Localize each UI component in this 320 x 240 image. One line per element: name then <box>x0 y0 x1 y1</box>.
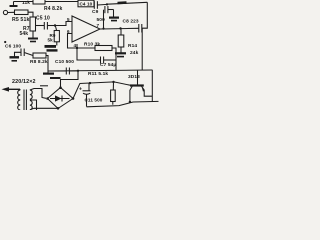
node dot C10 tap <box>77 70 79 72</box>
svg-text:C4 10: C4 10 <box>80 2 93 7</box>
rail dot C11 <box>89 82 91 84</box>
bridge diode line <box>50 98 70 100</box>
svg-text:C5 10: C5 10 <box>36 16 50 22</box>
capacitor C7 <box>100 57 102 64</box>
resistor R12 <box>111 90 116 102</box>
svg-text:500: 500 <box>97 17 106 23</box>
node A dot <box>54 24 56 26</box>
capacitor C11 stem top <box>88 83 90 91</box>
svg-text:3D13: 3D13 <box>128 74 140 80</box>
ground G6 (C6) <box>15 52 21 56</box>
svg-text:R4 8.2k: R4 8.2k <box>44 6 62 12</box>
svg-text:R11 5.1k: R11 5.1k <box>88 71 108 77</box>
wire C5 to node A <box>48 25 55 27</box>
capacitor C6 <box>20 49 22 57</box>
svg-text:7: 7 <box>97 23 100 28</box>
resistor R9 <box>54 31 59 42</box>
resistor R14 <box>118 35 124 47</box>
node C dot <box>119 27 121 29</box>
R7 ground <box>32 31 34 38</box>
svg-text:R14: R14 <box>128 43 137 49</box>
emitter arrow <box>142 87 145 91</box>
capacitor C8 <box>138 24 140 33</box>
wire C4 to node <box>98 3 107 6</box>
svg-text:24k: 24k <box>130 50 139 56</box>
base stem <box>137 70 139 85</box>
input terminal J1 <box>3 10 7 14</box>
svg-text:11k: 11k <box>22 0 30 6</box>
transformer T1 primary coil <box>18 90 20 110</box>
transformer core <box>23 90 25 111</box>
resistor R7 <box>30 17 36 31</box>
resistor R10 <box>95 46 112 51</box>
svg-text:R8 8.2k: R8 8.2k <box>30 59 48 65</box>
wire right rail <box>151 70 153 102</box>
resistor R12 stem <box>112 82 114 90</box>
wire terminal to R5 <box>8 11 15 13</box>
transformer T1 primary lead <box>19 88 21 91</box>
wire node A to pin5 <box>55 22 72 26</box>
capacitor C4 <box>93 1 95 9</box>
transistor Q1 base bar <box>130 84 144 86</box>
resistor R14 stem <box>120 28 122 35</box>
wire R8 right down <box>46 56 48 72</box>
capacitor C10 <box>65 68 67 75</box>
thick bar segment <box>118 1 127 4</box>
bridge BR1 diamond <box>48 88 74 109</box>
wire R8 left to C6 <box>25 53 33 56</box>
wire top right rail <box>107 2 147 4</box>
wire right corner down to C8 node <box>142 2 147 28</box>
bridge right connection <box>73 84 80 99</box>
secondary center tap <box>30 100 37 110</box>
svg-text:C9: C9 <box>92 9 99 15</box>
resistor R12 stem bottom <box>112 102 114 105</box>
bottom rail dot <box>129 101 131 103</box>
rail dot R tap <box>112 81 114 83</box>
capacitor C11 <box>83 90 91 92</box>
segment near bridge <box>40 85 48 87</box>
bottom rail <box>87 101 159 106</box>
bridge bottom wire <box>34 107 58 109</box>
wire R4 to C4 <box>45 1 78 3</box>
capacitor C5 <box>43 22 45 30</box>
mains arrow <box>5 88 20 90</box>
svg-text:C8 223: C8 223 <box>123 19 139 25</box>
wire C8 down rail <box>141 29 143 71</box>
svg-text:220/12×2: 220/12×2 <box>12 79 36 85</box>
svg-text:C10 500: C10 500 <box>55 59 74 65</box>
secondary bottom lead <box>30 108 34 110</box>
op-amp U1 <box>72 16 100 42</box>
node B dot <box>76 47 78 49</box>
ground G2 under R9 <box>56 42 58 46</box>
svg-text:54k: 54k <box>20 31 29 37</box>
wire C7 to join <box>104 59 116 61</box>
wire join down to base rail <box>115 60 117 70</box>
svg-text:C6 100: C6 100 <box>5 44 21 50</box>
collector rail <box>80 82 131 85</box>
resistor R5 <box>15 10 29 15</box>
transistor Q1 right leg <box>142 86 153 96</box>
wire R7 to C5 <box>36 25 45 27</box>
svg-text:5: 5 <box>67 17 70 22</box>
C10 wire right <box>70 70 78 72</box>
wire node B down to C7 <box>77 48 100 60</box>
capacitor C11 stem bottom <box>86 95 88 107</box>
op-amp output wire <box>100 27 139 30</box>
svg-text:R10 3k: R10 3k <box>84 42 100 48</box>
secondary top lead <box>30 89 46 99</box>
wire top rail <box>14 1 34 3</box>
resistor R8 <box>33 53 46 58</box>
pin6 feedback wire <box>68 34 78 49</box>
wire box around C4 label <box>78 0 94 7</box>
svg-text:R5 51k: R5 51k <box>12 17 29 23</box>
transistor Q1 left leg <box>130 86 132 102</box>
pin4 stub <box>76 44 78 48</box>
output node dot <box>102 28 104 30</box>
ground G5 (C10) <box>47 71 49 73</box>
svg-text:C11 500: C11 500 <box>85 98 103 103</box>
stray mark <box>4 41 6 43</box>
wire output riser to C9 <box>103 10 105 29</box>
svg-text:+: + <box>79 87 82 93</box>
ground G4 (R14) <box>120 47 122 53</box>
capacitor C9 <box>104 6 106 13</box>
resistor R4 <box>33 0 45 4</box>
wire R5 to R7 <box>28 12 33 17</box>
svg-text:4: 4 <box>74 43 77 48</box>
ground G1 top-left <box>13 2 15 6</box>
bridge vertex dots <box>59 86 62 89</box>
svg-text:5k: 5k <box>48 37 54 42</box>
bridge top connection <box>61 71 79 88</box>
wire node B to R10 <box>77 47 95 49</box>
transformer T1 secondary coil <box>30 90 32 99</box>
ground G3 (C9) <box>113 10 115 17</box>
node dot <box>106 3 108 5</box>
wire C9 to ground <box>108 9 113 11</box>
C10 wire left <box>48 70 66 72</box>
wire R10 right corner <box>112 48 116 60</box>
base rail wire <box>48 70 153 71</box>
svg-text:C7 54µ: C7 54µ <box>100 62 116 68</box>
bridge diode <box>55 95 62 101</box>
resistor R9 stem <box>55 26 56 31</box>
